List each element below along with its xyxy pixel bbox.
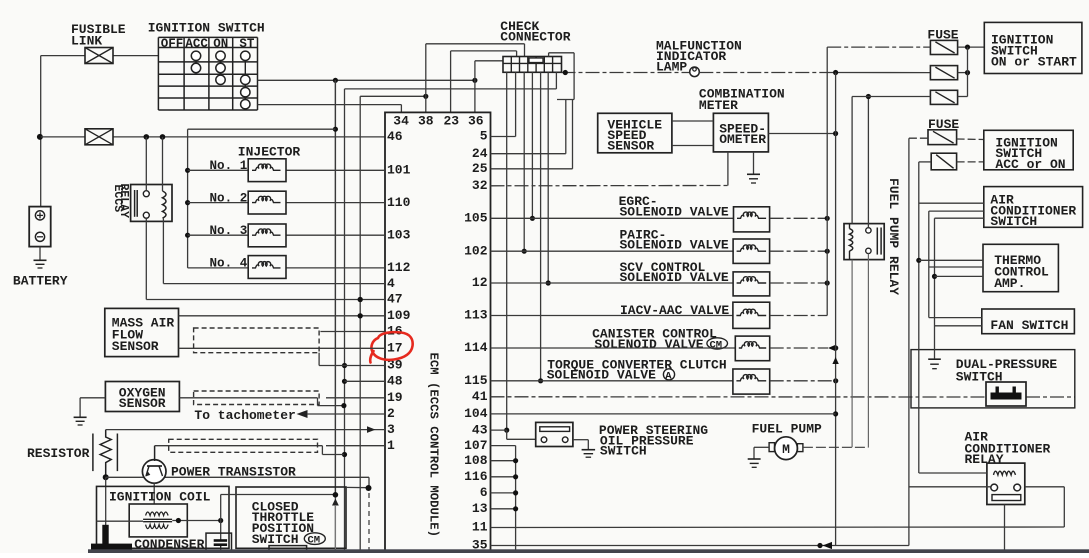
svg-text:FAN SWITCH: FAN SWITCH (990, 318, 1068, 333)
svg-text:OMETER: OMETER (719, 132, 766, 147)
svg-text:6: 6 (480, 485, 488, 500)
svg-text:11: 11 (472, 520, 488, 535)
svg-text:5: 5 (480, 129, 488, 144)
svg-text:M: M (782, 442, 790, 457)
svg-text:SWITCH: SWITCH (600, 444, 647, 459)
svg-text:SOLENOID VALVE: SOLENOID VALVE (620, 238, 729, 253)
svg-text:2: 2 (387, 406, 395, 421)
svg-text:INJECTOR: INJECTOR (238, 144, 301, 159)
svg-text:SOLENOID VALVE: SOLENOID VALVE (594, 337, 703, 352)
svg-text:116: 116 (464, 469, 488, 484)
svg-text:AMP.: AMP. (994, 276, 1025, 291)
svg-text:103: 103 (387, 227, 411, 242)
svg-text:17: 17 (387, 341, 403, 356)
svg-text:CM: CM (308, 535, 321, 547)
svg-text:113: 113 (464, 308, 488, 323)
svg-text:41: 41 (472, 389, 488, 404)
svg-text:ON or START: ON or START (991, 55, 1077, 70)
svg-text:36: 36 (468, 114, 484, 129)
svg-text:101: 101 (387, 163, 411, 178)
svg-text:12: 12 (472, 275, 488, 290)
svg-text:32: 32 (472, 178, 488, 193)
svg-text:SOLENOID VALVE: SOLENOID VALVE (620, 205, 729, 220)
svg-text:38: 38 (418, 114, 434, 129)
svg-text:IGNITION SWITCH: IGNITION SWITCH (148, 20, 265, 35)
svg-text:48: 48 (387, 374, 403, 389)
svg-text:114: 114 (464, 340, 488, 355)
svg-text:ACC: ACC (185, 37, 208, 51)
svg-text:SWITCH: SWITCH (990, 214, 1037, 229)
svg-text:34: 34 (393, 114, 409, 129)
svg-text:METER: METER (699, 98, 738, 113)
svg-text:LINK: LINK (71, 34, 102, 49)
svg-text:104: 104 (464, 406, 488, 421)
svg-text:112: 112 (387, 260, 411, 275)
svg-text:RESISTOR: RESISTOR (27, 446, 90, 461)
svg-text:4: 4 (387, 276, 395, 291)
svg-text:ON: ON (213, 37, 228, 51)
svg-text:ACC or ON: ACC or ON (995, 157, 1065, 172)
svg-text:24: 24 (472, 146, 488, 161)
svg-text:To tachometer: To tachometer (194, 408, 295, 423)
svg-text:102: 102 (464, 243, 488, 258)
svg-text:43: 43 (472, 422, 488, 437)
svg-text:RELAY: RELAY (965, 452, 1004, 467)
svg-text:IGNITION COIL: IGNITION COIL (109, 489, 211, 504)
svg-text:SENSOR: SENSOR (607, 139, 654, 154)
svg-text:FUEL PUMP RELAY: FUEL PUMP RELAY (886, 178, 901, 295)
svg-text:CM: CM (710, 339, 723, 351)
svg-text:105: 105 (464, 211, 488, 226)
svg-text:BATTERY: BATTERY (13, 273, 68, 288)
svg-text:FUEL PUMP: FUEL PUMP (752, 422, 822, 437)
svg-text:CONNECTOR: CONNECTOR (500, 30, 570, 45)
svg-text:109: 109 (387, 308, 411, 323)
svg-text:3: 3 (387, 422, 395, 437)
svg-text:13: 13 (472, 501, 488, 516)
svg-text:SENSOR: SENSOR (119, 396, 166, 411)
svg-text:25: 25 (472, 161, 488, 176)
svg-text:110: 110 (387, 195, 411, 210)
svg-text:115: 115 (464, 373, 488, 388)
svg-text:RELAY: RELAY (117, 184, 130, 219)
svg-text:ST: ST (239, 37, 255, 51)
svg-text:107: 107 (464, 438, 487, 453)
svg-text:19: 19 (387, 390, 403, 405)
svg-text:23: 23 (444, 114, 460, 129)
svg-text:46: 46 (387, 129, 403, 144)
svg-text:POWER TRANSISTOR: POWER TRANSISTOR (171, 464, 296, 479)
svg-text:ECM (ECCS CONTROL MODULE): ECM (ECCS CONTROL MODULE) (427, 353, 441, 537)
svg-text:OFF: OFF (161, 37, 184, 51)
svg-text:SENSOR: SENSOR (112, 339, 159, 354)
svg-text:47: 47 (387, 292, 403, 307)
svg-text:108: 108 (464, 453, 488, 468)
svg-text:1: 1 (387, 438, 395, 453)
